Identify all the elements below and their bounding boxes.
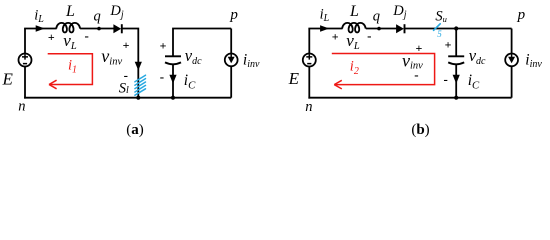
junction dot Sl branch bottom (a) <box>136 96 140 100</box>
label Sl (a) <box>119 81 129 97</box>
label - of vinv (b) <box>414 67 418 82</box>
wire: bottom wire (b) <box>308 97 511 99</box>
svg-text:(b): (b) <box>411 122 429 138</box>
label - of vinv (a) <box>124 67 128 82</box>
label iL (b) <box>320 7 330 25</box>
diode Dj (a) <box>113 24 121 33</box>
svg-text:+: + <box>48 30 55 44</box>
diode Dj (b) <box>396 24 404 33</box>
label + of vL (b) <box>332 29 339 43</box>
wire: right rail top (a) <box>230 29 232 54</box>
label q (b) <box>373 9 380 25</box>
svg-text:L: L <box>349 3 359 20</box>
svg-text:-: - <box>414 67 418 82</box>
voltage source E circle (a) <box>19 54 32 67</box>
label i1 (red) <box>68 57 77 75</box>
caption (a) <box>126 122 144 138</box>
capacitor vdc (b) <box>448 56 464 64</box>
junction dot capacitor branch top (b) <box>454 26 458 30</box>
wire: right rail bottom (b) <box>511 66 513 98</box>
svg-text:5: 5 <box>437 29 442 39</box>
caption (b) <box>411 122 429 138</box>
label E (a) <box>2 69 14 88</box>
wire: capacitor branch bottom (b) <box>455 64 457 98</box>
label + of vdc (a) <box>160 39 167 53</box>
wire: left rail bottom of E (b) <box>308 66 310 98</box>
label - of vdc (b) <box>444 72 448 87</box>
svg-text:n: n <box>18 99 25 115</box>
label i2 (red) <box>350 59 359 77</box>
svg-text:+: + <box>332 29 339 43</box>
wire: capacitor branch top (b) <box>455 29 457 57</box>
svg-text:E: E <box>288 69 300 88</box>
svg-text:-: - <box>367 28 371 43</box>
inductor L (a) <box>56 23 80 33</box>
label - of vL (a) <box>85 28 89 43</box>
switch Su blue glyph <box>437 29 442 39</box>
label n (a) <box>18 99 25 115</box>
label E (b) <box>288 69 300 88</box>
current arrow iL (a) <box>36 25 45 31</box>
wire: left rail top of E (b) <box>308 29 310 54</box>
node q (b) <box>377 27 381 31</box>
label iC (b) <box>468 72 480 92</box>
current source iinv circle (b) <box>505 54 518 67</box>
label vL (a) <box>63 31 77 52</box>
label Dj (a) <box>109 3 123 21</box>
label vinv (b) <box>402 50 423 71</box>
svg-text:q: q <box>94 9 101 25</box>
svg-text:q: q <box>373 9 380 25</box>
current source iinv circle (a) <box>225 54 238 67</box>
label Dj (b) <box>392 3 406 21</box>
svg-text:+: + <box>445 37 452 51</box>
svg-text:-: - <box>85 28 89 43</box>
label + of vinv (a) <box>123 38 130 52</box>
wire: bottom wire (a) <box>24 97 231 99</box>
svg-text:n: n <box>305 99 312 115</box>
svg-text:+: + <box>160 39 167 53</box>
label - of vL (b) <box>367 28 371 43</box>
wire: top wire from left corner to inductor (b) <box>308 28 342 30</box>
current arrow iL (b) <box>320 25 329 31</box>
junction dot capacitor branch bottom (b) <box>454 96 458 100</box>
switch Su open mark (blue slash) <box>434 24 441 31</box>
svg-text:p: p <box>229 7 238 23</box>
svg-text:+: + <box>123 38 130 52</box>
wire: diode to corner and Sl branch down (a) <box>122 29 139 98</box>
wire: left rail top of E (a) <box>24 29 26 54</box>
svg-text:L: L <box>65 3 75 20</box>
label p (b) <box>517 7 526 23</box>
label vdc (a) <box>185 46 202 67</box>
wire: inductor to diode with node q (a) <box>80 28 114 30</box>
svg-text:-: - <box>160 69 164 84</box>
inductor L (b) <box>342 23 366 33</box>
label vL (b) <box>346 31 360 52</box>
label iinv (a) <box>243 51 260 70</box>
capacitor vdc (a) <box>165 56 181 64</box>
label - of vdc (a) <box>160 69 164 84</box>
wire: inductor to diode with node q (b) <box>366 28 397 30</box>
voltage source E circle (b) <box>303 54 316 67</box>
svg-text:p: p <box>517 7 526 23</box>
label vdc (b) <box>469 46 486 67</box>
switch Sl conduction hatch (blue) <box>135 75 146 95</box>
label vinv (a) <box>101 46 122 67</box>
label L (b) <box>349 3 359 20</box>
svg-text:-: - <box>444 72 448 87</box>
label L (a) <box>65 3 75 20</box>
wire: right rail bottom (a) <box>230 66 232 98</box>
label n (b) <box>305 99 312 115</box>
wire: capacitor branch bottom (a) <box>172 64 174 98</box>
loop current i2 arrow (red) <box>332 54 435 89</box>
svg-text:(a): (a) <box>126 122 144 138</box>
svg-text:+: + <box>415 41 422 55</box>
current arrow iC (a) <box>169 75 176 84</box>
current arrow iC (b) <box>453 75 460 84</box>
label p (a) <box>229 7 238 23</box>
loop current i1 arrow (red) <box>48 54 93 89</box>
label iC (a) <box>184 72 196 92</box>
label Su (b) <box>435 8 447 24</box>
wire: capacitor branch top corner and top wire right section (a) <box>173 29 231 57</box>
wire: left rail bottom of E (a) <box>24 66 26 98</box>
label + of vdc (b) <box>445 37 452 51</box>
label + of vL (a) <box>48 30 55 44</box>
current arrow downward on Sl branch (a) <box>135 62 142 71</box>
wire: diode to node p corner (b) <box>404 28 511 30</box>
label iL (a) <box>34 7 44 25</box>
wire: right rail top (b) <box>511 29 513 54</box>
label q (a) <box>94 9 101 25</box>
label + of vinv (b) <box>415 41 422 55</box>
junction dot capacitor branch bottom (a) <box>171 96 175 100</box>
svg-text:E: E <box>2 69 14 88</box>
node q (a) <box>97 27 101 31</box>
label iinv (b) <box>525 51 542 70</box>
wire: top wire from left corner to inductor (a) <box>24 28 57 30</box>
